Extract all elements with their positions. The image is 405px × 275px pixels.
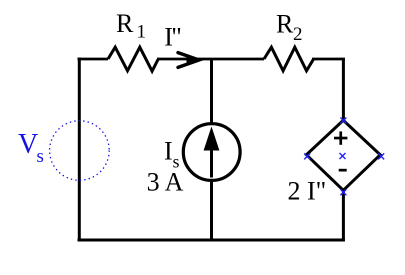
wire top middle segment — [157, 58, 264, 61]
wire right vertical lower — [342, 190, 345, 241]
wire right vertical upper — [342, 59, 345, 121]
resistor R2 — [264, 47, 313, 71]
wire top right segment — [312, 58, 345, 61]
svg-text:": " — [171, 23, 182, 52]
wire middle vertical lower — [210, 180, 213, 241]
dependent source 2I" diamond — [306, 120, 380, 190]
svg-text:1: 1 — [137, 22, 147, 43]
wire top left segment — [78, 58, 109, 61]
selection handle x left — [304, 153, 310, 159]
wire left vertical (Vs branch) — [78, 58, 81, 242]
svg-text:2 I": 2 I" — [288, 177, 327, 206]
resistor R1 — [108, 47, 158, 71]
svg-text:R: R — [116, 9, 134, 38]
selection handle x bottom — [340, 189, 346, 195]
dependent source minus sign — [339, 169, 347, 172]
selection handle x top — [340, 118, 346, 124]
svg-text:R: R — [276, 10, 294, 39]
svg-text:2: 2 — [293, 24, 303, 45]
dependent source plus sign — [334, 131, 347, 144]
voltage source Vs (dotted circle) — [50, 121, 110, 181]
selection handle x center — [340, 153, 346, 159]
svg-text:s: s — [37, 146, 44, 167]
wire middle vertical upper — [210, 59, 213, 124]
svg-text:3 A: 3 A — [147, 168, 184, 197]
wire bottom — [78, 239, 345, 242]
current source Is circle — [183, 124, 240, 181]
svg-text:I: I — [164, 137, 173, 166]
current arrow I" head — [178, 53, 200, 68]
selection handle x right — [378, 153, 384, 159]
current source Is arrow — [204, 127, 220, 178]
svg-text:V: V — [18, 129, 38, 160]
